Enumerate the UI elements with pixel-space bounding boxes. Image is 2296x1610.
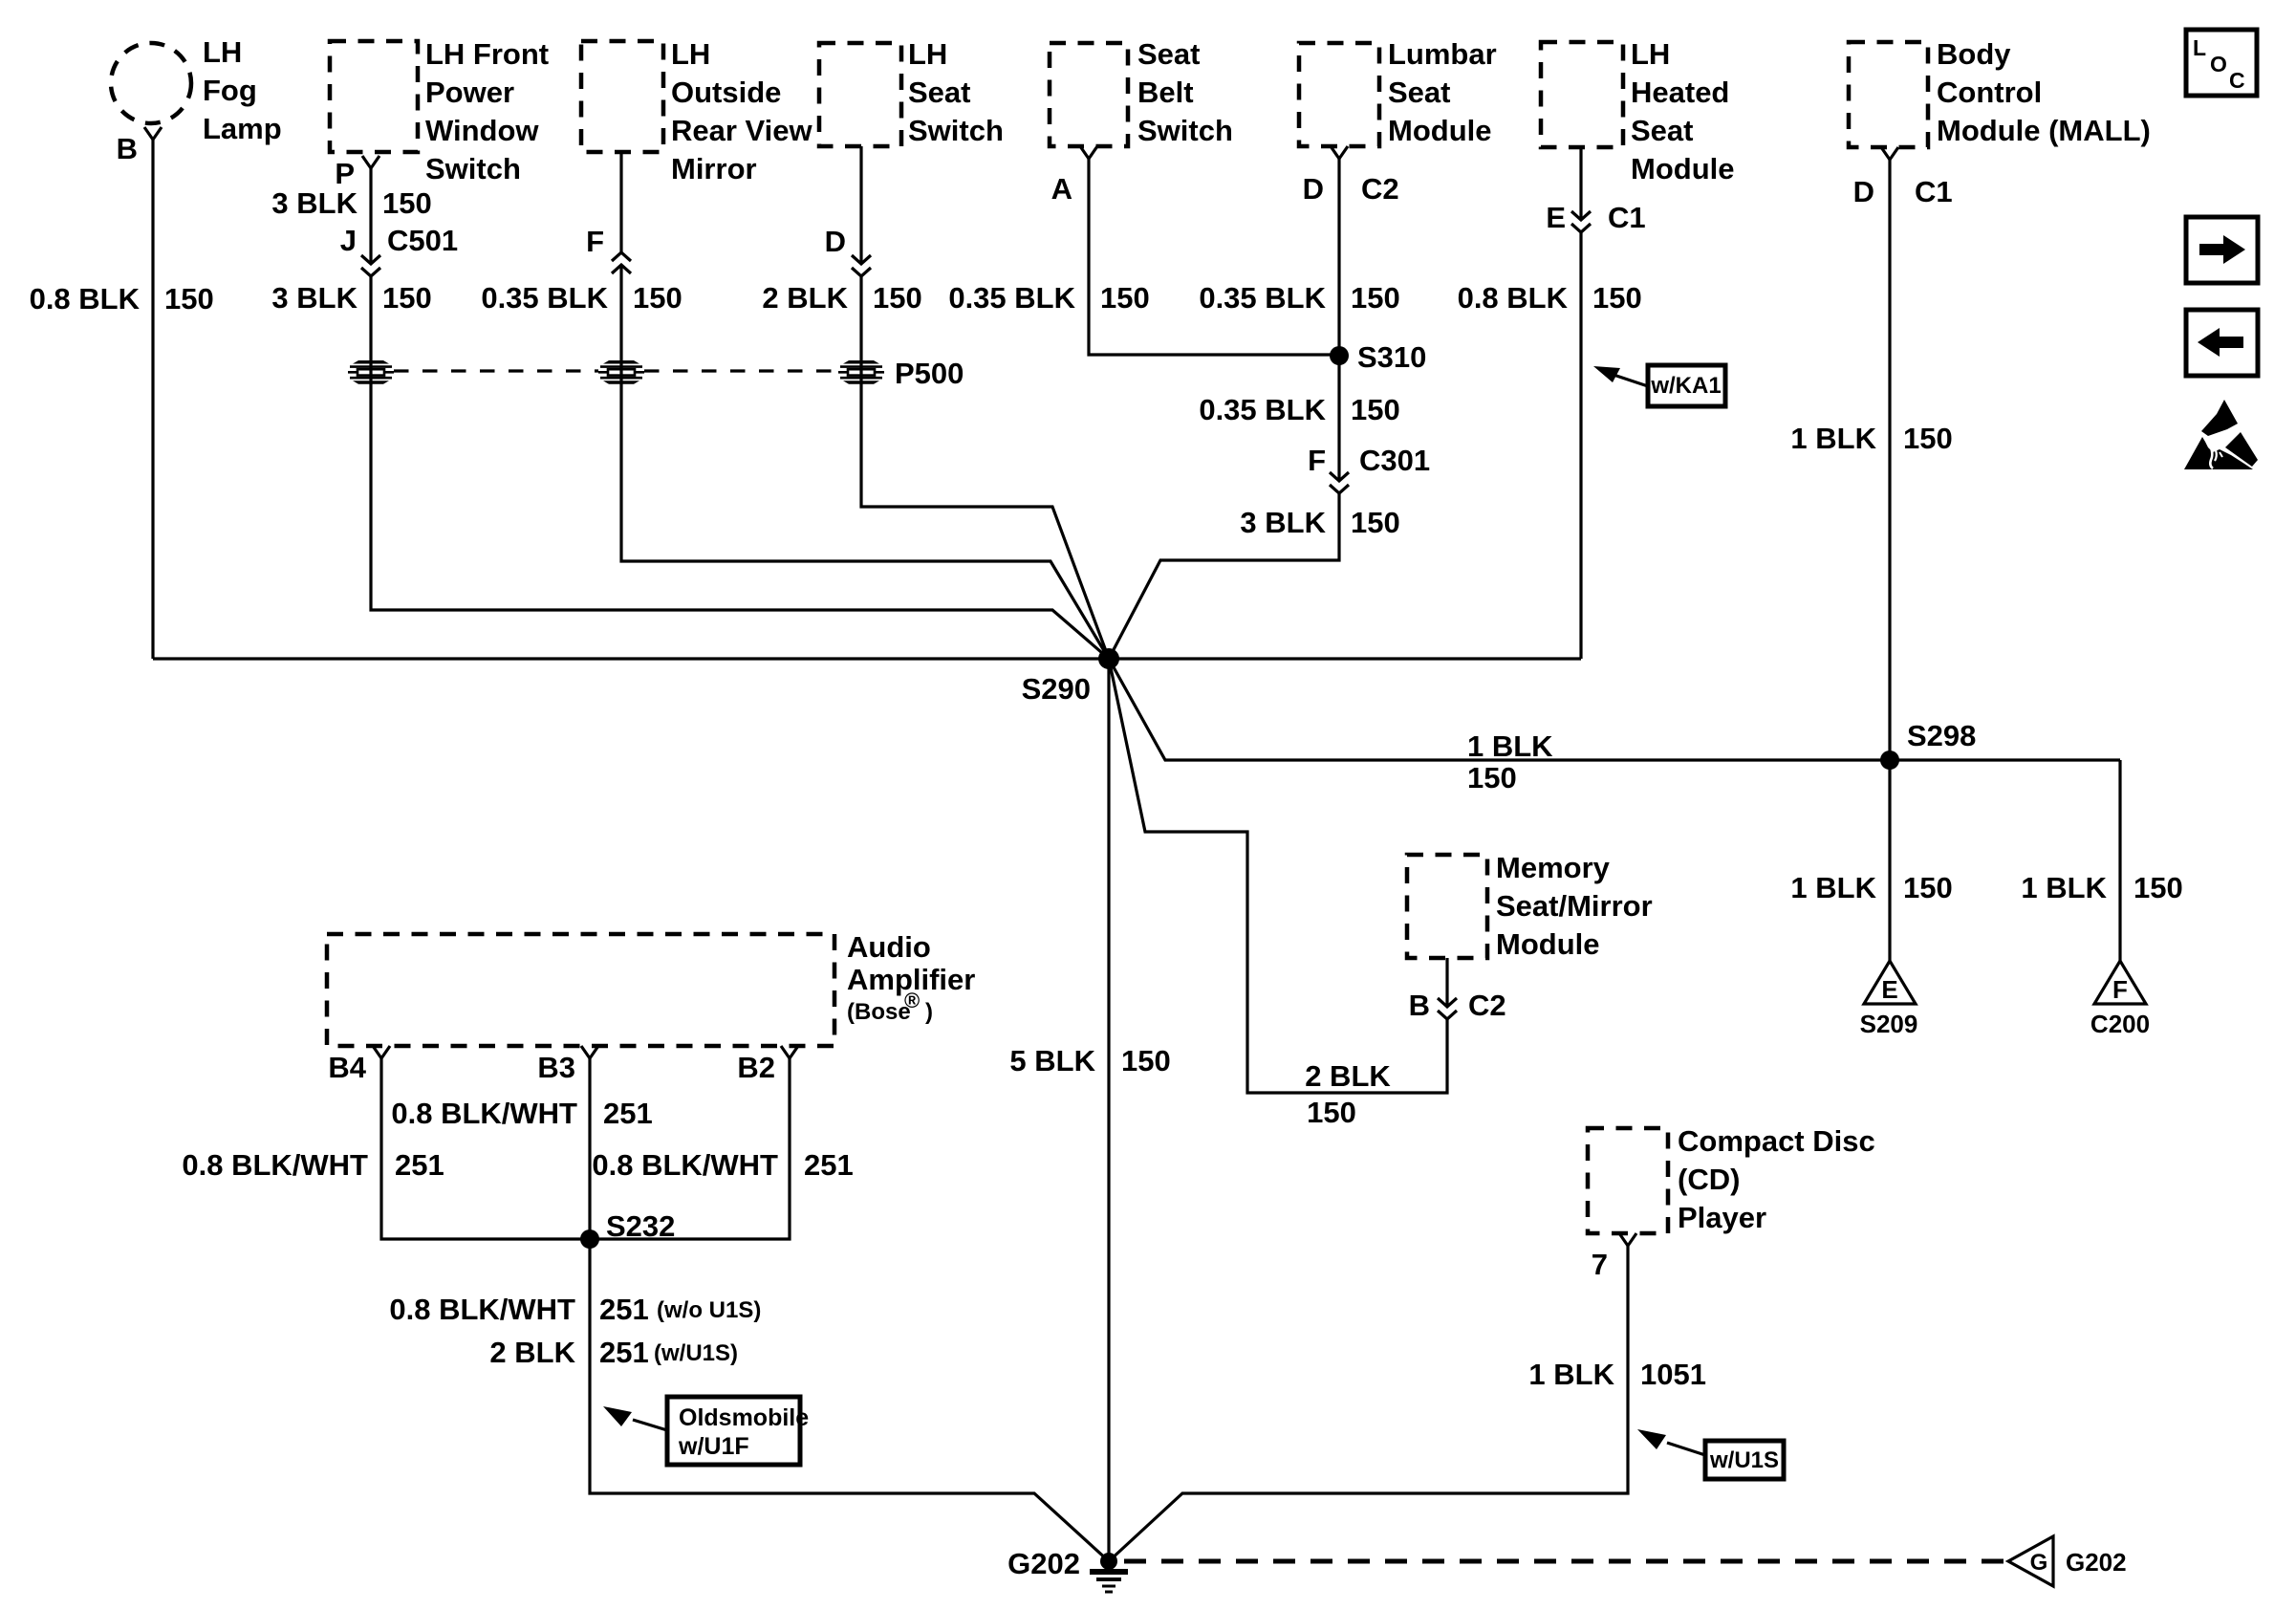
svg-text:G: G [2030,1550,2048,1576]
svg-text:150: 150 [1903,422,1953,455]
pin A of Seat Belt Switch [1051,146,1097,206]
svg-text:Rear View: Rear View [671,114,813,147]
connector C2 pin B (inline double chevron) on memory wire [1409,989,1506,1022]
svg-text:150: 150 [2134,871,2183,904]
svg-text:J: J [340,224,357,257]
svg-text:(CD): (CD) [1678,1163,1740,1196]
annotation w/U1S with arrow [1637,1429,1784,1479]
svg-text:(Bose: (Bose [847,999,911,1025]
legend left-arrow box [2186,310,2258,376]
Audio Amplifier (Bose) [327,930,975,1046]
Compact Disc (CD) Player [1588,1124,1875,1234]
label 1 BLK 150 (S209 wire) [1790,871,1952,904]
svg-text:S298: S298 [1907,719,1976,752]
svg-text:Player: Player [1678,1201,1766,1234]
wire S232 to G202 [590,1239,1109,1561]
LH Seat Switch [819,37,1004,147]
wire C301 to S290 (3 BLK 150) [1109,493,1339,659]
svg-text:F: F [2112,975,2128,1004]
LH Front Power Window Switch [330,37,549,185]
svg-text:0.8 BLK/WHT: 0.8 BLK/WHT [389,1293,575,1326]
svg-text:C1: C1 [1608,201,1646,234]
svg-text:O: O [2210,52,2227,76]
pin D connector C2 of Lumbar Seat Module [1303,146,1399,206]
svg-text:150: 150 [1351,281,1400,315]
svg-text:G202: G202 [2066,1548,2127,1577]
svg-text:A: A [1051,172,1072,206]
svg-text:B2: B2 [737,1051,775,1084]
svg-text:3 BLK: 3 BLK [271,281,357,315]
label 2 BLK 251 (w/U1S) [489,1336,738,1369]
pin 7 of CD Player [1592,1233,1636,1281]
svg-text:Heated: Heated [1631,76,1729,109]
wire B3 to S232 (0.8 BLK/WHT 251) [588,1058,591,1239]
svg-text:3 BLK: 3 BLK [1240,506,1326,539]
svg-text:Seat: Seat [1137,37,1200,71]
svg-text:150: 150 [873,281,922,315]
label 0.35 BLK 150 (lumbar upper) [1199,281,1399,315]
svg-text:LH: LH [203,35,242,69]
svg-text:C301: C301 [1359,444,1430,477]
main ground bus wire through S290 (fog to heated seat) [153,657,1581,660]
svg-text:2 BLK: 2 BLK [1305,1059,1391,1093]
wire CD player to G202 (1 BLK 1051) [1109,1246,1628,1561]
connector pin D (inline double chevron) on seat switch wire [825,225,871,276]
svg-text:B4: B4 [328,1051,366,1084]
svg-text:C2: C2 [1468,989,1506,1022]
wire B4 to S232 (0.8 BLK/WHT 251) [381,1058,590,1239]
svg-text:Compact Disc: Compact Disc [1678,1124,1875,1158]
svg-text:1051: 1051 [1640,1358,1706,1391]
svg-text:(w/o U1S): (w/o U1S) [657,1297,761,1323]
wire B2 to S232 (0.8 BLK/WHT 251) [590,1058,790,1239]
svg-text:®: ® [904,989,920,1012]
svg-text:Switch: Switch [425,152,521,185]
svg-text:3 BLK: 3 BLK [271,186,357,220]
svg-text:1 BLK: 1 BLK [1467,729,1553,763]
svg-text:w/KA1: w/KA1 [1650,373,1721,399]
svg-text:Switch: Switch [908,114,1004,147]
wire S298 right and down to C200 (1 BLK 150) [2118,760,2121,961]
svg-text:LH: LH [908,37,947,71]
svg-text:0.8 BLK: 0.8 BLK [30,282,141,315]
svg-text:Module: Module [1631,152,1735,185]
svg-text:D: D [1303,172,1324,206]
svg-text:7: 7 [1592,1248,1608,1281]
label 1 BLK 1051 [1528,1358,1706,1391]
wire S310 down to C301 (0.35 BLK 150) [1337,356,1340,481]
splice S310 [1330,340,1426,374]
pin B4 of Audio Amplifier [328,1046,390,1084]
svg-text:F: F [586,225,604,258]
svg-text:150: 150 [1307,1096,1356,1129]
svg-text:0.8 BLK/WHT: 0.8 BLK/WHT [182,1148,368,1182]
label 0.35 BLK 150 (seat belt wire) [948,281,1149,315]
grommet P500 on power window wire [348,360,394,384]
svg-text:w/U1S: w/U1S [1709,1447,1779,1473]
svg-text:150: 150 [1467,761,1517,794]
wire S290 to S298 (1 BLK 150) [1109,659,2120,760]
wire seat belt switch to S310 (0.35 BLK 150) [1089,159,1337,355]
svg-text:Lumbar: Lumbar [1388,37,1497,71]
svg-text:Module: Module [1388,114,1492,147]
svg-text:D: D [1853,175,1874,208]
svg-text:P500: P500 [895,357,964,390]
connector pin F (inline chevron up) on mirror wire [586,225,631,273]
svg-text:150: 150 [1903,871,1953,904]
svg-text:E: E [1881,975,1897,1004]
svg-text:1 BLK: 1 BLK [1790,871,1876,904]
svg-text:Lamp: Lamp [203,112,282,145]
svg-text:Belt: Belt [1137,76,1194,109]
pin D connector C1 of Body Control Module [1853,147,1953,208]
annotation w/KA1 with arrow [1593,365,1725,406]
svg-text:w/U1F: w/U1F [678,1433,749,1460]
svg-text:C: C [2229,68,2245,93]
wire heated seat upper segment [1579,147,1582,220]
svg-text:0.35 BLK: 0.35 BLK [948,281,1075,315]
legend LOC box [2186,30,2257,96]
svg-text:S209: S209 [1860,1010,1918,1038]
svg-text:150: 150 [1592,281,1642,315]
svg-text:251: 251 [395,1148,444,1182]
svg-text:S310: S310 [1357,340,1426,374]
pin B of LH Fog Lamp [117,127,162,165]
label 0.8 BLK 150 (heated seat wire) [1458,281,1642,315]
svg-text:150: 150 [1351,506,1400,539]
svg-text:C1: C1 [1915,175,1953,208]
svg-text:E: E [1546,201,1566,234]
label 0.8 BLK 150 (fog lamp wire) [30,282,214,315]
svg-text:Module: Module [1496,927,1600,961]
legend ESD susceptibility symbol [2184,400,2258,469]
label 1 BLK 150 (BCM wire) [1790,422,1952,455]
svg-text:251: 251 [599,1336,649,1369]
label 0.35 BLK 150 (mirror wire) [481,281,682,315]
svg-text:0.35 BLK: 0.35 BLK [1199,393,1326,426]
dashed grommet link line P500 [394,369,838,372]
svg-text:1 BLK: 1 BLK [1528,1358,1614,1391]
svg-text:D: D [825,225,846,258]
svg-text:5 BLK: 5 BLK [1009,1044,1095,1077]
Seat Belt Switch [1050,37,1233,147]
LH Fog Lamp (dashed circle) [111,35,282,145]
svg-text:G202: G202 [1007,1547,1080,1580]
svg-text:Seat: Seat [1631,114,1693,147]
wire memory module to S290 (2 BLK 150) [1109,659,1447,1093]
ground G202 [1007,1547,1128,1592]
svg-text:Body: Body [1937,37,2011,71]
wire heated seat to S290 (0.8 BLK 150) [1579,232,1582,659]
svg-text:B: B [1409,989,1430,1022]
svg-text:150: 150 [633,281,682,315]
label 0.35 BLK 150 (below S310) [1199,393,1399,426]
pin B2 of Audio Amplifier [737,1046,798,1084]
splice S298 [1880,719,1976,770]
svg-text:251: 251 [804,1148,854,1182]
wire power window switch upper segment 3 BLK 150 [369,168,372,264]
svg-text:Module (MALL): Module (MALL) [1937,114,2151,147]
svg-text:0.35 BLK: 0.35 BLK [481,281,608,315]
svg-text:S232: S232 [606,1209,675,1243]
svg-text:Switch: Switch [1137,114,1233,147]
svg-text:0.8 BLK: 0.8 BLK [1458,281,1569,315]
svg-text:Seat: Seat [1388,76,1450,109]
label 0.8 BLK/WHT 251 (B2 wire) [592,1148,853,1182]
ground splice reference triangle E S209 [1860,961,1918,1038]
label 0.8 BLK/WHT 251 (B3 wire) [391,1097,652,1130]
svg-text:Fog: Fog [203,74,257,107]
Memory Seat/Mirror Module [1407,851,1653,961]
svg-text:150: 150 [382,281,432,315]
label 0.8 BLK/WHT 251 (B4 wire) [182,1148,444,1182]
svg-text:2 BLK: 2 BLK [489,1336,575,1369]
svg-text:Window: Window [425,114,539,147]
svg-text:Oldsmobile: Oldsmobile [679,1404,809,1431]
LH Heated Seat Module [1541,37,1735,185]
connector C1 pin E (inline double chevron) on heated seat wire [1546,201,1645,234]
svg-text:1 BLK: 1 BLK [2021,871,2107,904]
svg-text:Control: Control [1937,76,2042,109]
svg-text:LH: LH [671,37,710,71]
svg-text:150: 150 [1121,1044,1171,1077]
wire lumbar module to S310 [1337,159,1340,356]
svg-text:251: 251 [599,1293,649,1326]
wire S290 down to G202 (5 BLK 150) [1107,659,1110,1561]
connector reference triangle F C200 [2090,961,2150,1038]
label 0.8 BLK/WHT 251 (w/o U1S) [389,1293,761,1326]
svg-text:Outside: Outside [671,76,781,109]
svg-text:LH Front: LH Front [425,37,549,71]
wire BCM to S298 (1 BLK 150) [1888,160,1891,760]
svg-text:251: 251 [603,1097,653,1130]
splice S232 [580,1209,675,1249]
label 1 BLK 150 (C200 wire) [2021,871,2182,904]
svg-text:150: 150 [382,186,432,220]
svg-text:LH: LH [1631,37,1670,71]
svg-text:C200: C200 [2090,1010,2150,1038]
LH Outside Rear View Mirror [581,37,813,185]
grommet P500 (labelled) on seat switch wire [838,357,964,390]
wire mirror lower segment to S290 (0.35 BLK 150) [621,265,1109,659]
svg-text:Mirror: Mirror [671,152,757,185]
svg-text:C2: C2 [1361,172,1399,206]
svg-text:P: P [335,157,355,190]
svg-text:0.8 BLK/WHT: 0.8 BLK/WHT [592,1148,778,1182]
svg-text:S290: S290 [1022,672,1091,706]
wire power window switch lower segment to S290 [371,276,1109,659]
grommet on mirror wire [598,360,644,384]
ground reference triangle G G202 [2008,1536,2127,1586]
Lumbar Seat Module [1299,37,1497,147]
svg-text:150: 150 [1351,393,1400,426]
Body Control Module (MALL) [1849,37,2151,147]
wire seat switch lower segment to S290 (2 BLK 150) [861,276,1109,659]
wire memory module upper segment [1445,958,1448,1007]
svg-text:C501: C501 [387,224,458,257]
svg-text:150: 150 [164,282,214,315]
svg-text:B: B [117,132,138,165]
splice S290 [1022,648,1119,706]
legend right-arrow box [2186,217,2258,283]
svg-text:150: 150 [1100,281,1150,315]
svg-text:): ) [925,999,933,1025]
svg-text:B3: B3 [537,1051,575,1084]
pin B3 of Audio Amplifier [537,1046,598,1084]
label 2 BLK 150 (seat switch wire) [762,281,921,315]
dashed ground link to triangle G [1124,1559,2008,1564]
svg-text:Audio: Audio [847,930,931,964]
svg-text:L: L [2193,35,2206,60]
svg-text:Power: Power [425,76,514,109]
wire mirror upper segment [619,152,622,252]
svg-text:(w/U1S): (w/U1S) [654,1340,738,1366]
wire fog lamp to S290 (0.8 BLK 150) [151,140,154,659]
pin P of Power Window Switch [335,156,379,190]
svg-text:F: F [1308,444,1326,477]
label 3 BLK 150 (upper) [271,186,431,220]
annotation Oldsmobile w/U1F with arrow [603,1397,809,1465]
svg-text:1 BLK: 1 BLK [1790,422,1876,455]
wire seat switch upper segment [859,146,862,264]
svg-text:Seat: Seat [908,76,970,109]
svg-text:0.8 BLK/WHT: 0.8 BLK/WHT [391,1097,577,1130]
svg-text:Seat/Mirror: Seat/Mirror [1496,889,1653,923]
svg-text:2 BLK: 2 BLK [762,281,848,315]
label 3 BLK 150 (lower) [271,281,431,315]
connector C301 pin F (inline double chevron) [1308,444,1430,493]
label 5 BLK 150 [1009,1044,1170,1077]
wire S298 down to S209 (1 BLK 150) [1888,760,1891,961]
svg-text:Memory: Memory [1496,851,1611,884]
svg-text:0.35 BLK: 0.35 BLK [1199,281,1326,315]
connector C501 pin J (inline double chevron) [340,224,458,276]
label 3 BLK 150 (C301 wire) [1240,506,1399,539]
